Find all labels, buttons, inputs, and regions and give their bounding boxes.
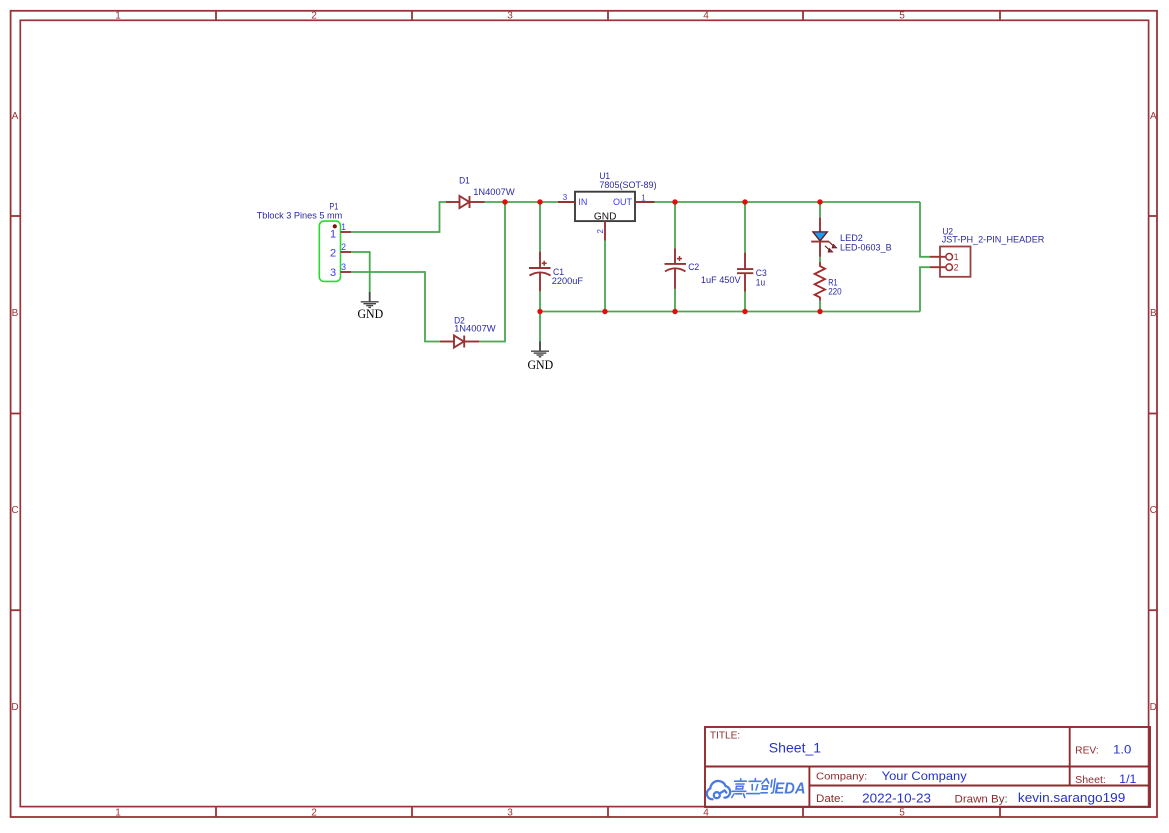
- wire C3 top: [744, 202, 746, 253]
- capacitor C2 1uF 450V (polarized): [665, 248, 742, 289]
- TITLEBLOCK: [705, 727, 1150, 807]
- svg-text:A: A: [12, 111, 19, 122]
- svg-text:D1: D1: [459, 175, 470, 186]
- svg-text:2022-10-23: 2022-10-23: [862, 790, 931, 805]
- wire LED2 cathode to R1: [819, 257, 821, 262]
- svg-text:1/1: 1/1: [1119, 772, 1137, 786]
- svg-text:1.0: 1.0: [1113, 743, 1132, 757]
- svg-text:B: B: [12, 308, 19, 319]
- wire C2 bottom: [674, 289, 676, 312]
- svg-text:kevin.sarango199: kevin.sarango199: [1018, 790, 1125, 805]
- wire U2 pin2 to GND rail: [920, 267, 930, 311]
- svg-text:1: 1: [641, 193, 646, 202]
- svg-text:1N4007W: 1N4007W: [473, 186, 515, 197]
- svg-text:C2: C2: [688, 261, 699, 272]
- svg-text:5: 5: [899, 808, 905, 819]
- svg-text:2: 2: [596, 229, 605, 234]
- svg-text:C: C: [1150, 505, 1157, 516]
- svg-text:Sheet_1: Sheet_1: [769, 740, 822, 756]
- svg-text:1: 1: [330, 228, 336, 240]
- svg-text:2: 2: [954, 262, 959, 272]
- wire U1 GND pin to GND rail: [604, 241, 606, 312]
- svg-text:GND: GND: [527, 358, 553, 372]
- resistor R1 220: [815, 262, 842, 301]
- svg-text:2: 2: [330, 248, 336, 260]
- svg-text:3: 3: [563, 193, 568, 202]
- svg-text:4: 4: [703, 11, 709, 22]
- svg-text:Company:: Company:: [816, 771, 867, 783]
- junction +5V/LED2: [817, 199, 822, 204]
- junction GND/R1: [817, 309, 822, 314]
- svg-text:D: D: [1150, 702, 1157, 713]
- U1 pin 3 (IN) lead: [558, 201, 575, 203]
- U1 pin 1 (OUT) lead: [635, 201, 655, 203]
- svg-text:Tblock 3 Pines 5 mm: Tblock 3 Pines 5 mm: [257, 209, 343, 220]
- junction GND/C2: [672, 309, 677, 314]
- wire +5V rail to U2 pin1: [920, 202, 930, 257]
- wire D2 cathode up to VIN rail: [479, 202, 505, 342]
- junction +5V/C3: [742, 199, 747, 204]
- svg-text:C: C: [11, 505, 18, 516]
- P1 pin1 origin dot: [333, 224, 337, 228]
- svg-text:B: B: [1150, 308, 1157, 319]
- junction GND/C3: [742, 309, 747, 314]
- wire GND bottom rail: [540, 311, 920, 313]
- wire P1 pin1 to D1 anode: [351, 202, 446, 232]
- ground symbol GND (main rail): [527, 342, 553, 372]
- svg-text:3: 3: [507, 11, 513, 22]
- svg-text:IN: IN: [578, 197, 587, 207]
- svg-text:A: A: [1150, 111, 1157, 122]
- svg-text:Your Company: Your Company: [882, 771, 967, 783]
- svg-text:REV:: REV:: [1075, 746, 1099, 757]
- svg-text:7805(SOT-89): 7805(SOT-89): [599, 179, 656, 190]
- svg-text:1u: 1u: [756, 276, 765, 287]
- svg-text:2: 2: [341, 242, 346, 252]
- wire C1 top to VIN rail: [539, 202, 541, 251]
- svg-text:3: 3: [507, 808, 513, 819]
- svg-text:Drawn By:: Drawn By:: [955, 793, 1008, 805]
- svg-text:Date:: Date:: [816, 793, 844, 805]
- U1 pin 2 (GND) lead: [604, 221, 606, 240]
- svg-text:OUT: OUT: [613, 197, 633, 207]
- 嘉: [731, 779, 747, 798]
- wire P1 pin2 to GND symbol: [351, 252, 370, 292]
- junction GND/C1: [537, 309, 542, 314]
- svg-text:220: 220: [828, 286, 842, 297]
- ground symbol GND (P1 pin2): [357, 292, 383, 321]
- capacitor C1 2200uF (polarized): [529, 251, 583, 291]
- svg-text:3: 3: [330, 267, 336, 279]
- wire D1 cathode to U1 IN (net VIN): [485, 201, 559, 203]
- junction VIN/D2: [502, 199, 507, 204]
- connector P1: [257, 201, 351, 282]
- LED2 emission arrows: [825, 242, 836, 252]
- svg-text:1: 1: [954, 252, 959, 262]
- diode D1 1N4007W: [446, 175, 515, 209]
- svg-text:LED-0603_B: LED-0603_B: [840, 242, 892, 253]
- svg-text:1: 1: [115, 11, 121, 22]
- regulator U1 7805(SOT-89): [558, 170, 657, 241]
- wire P1 pin3 to D2 anode: [351, 272, 440, 342]
- LED2 LED-0603_B: [811, 217, 891, 256]
- svg-text:1uF 450V: 1uF 450V: [701, 274, 741, 285]
- connector U2 JST-PH_2-PIN_HEADER: [930, 225, 1045, 276]
- svg-text:GND: GND: [594, 211, 617, 222]
- junction GND/U1: [602, 309, 607, 314]
- svg-text:1: 1: [341, 222, 346, 232]
- diode D2 1N4007W: [440, 314, 496, 347]
- wire C1 bottom to GND rail: [539, 291, 541, 311]
- svg-text:JST-PH_2-PIN_HEADER: JST-PH_2-PIN_HEADER: [942, 234, 1045, 245]
- svg-text:TITLE:: TITLE:: [710, 731, 740, 742]
- wire GND2 symbol drop: [539, 312, 541, 342]
- junction +5V/C2: [672, 199, 677, 204]
- CIRCUIT: [257, 170, 1045, 372]
- svg-text:1N4007W: 1N4007W: [454, 323, 496, 334]
- wire R1 to GND rail: [819, 301, 821, 312]
- wire C2 top: [674, 202, 676, 248]
- svg-text:GND: GND: [357, 307, 383, 321]
- svg-text:2200uF: 2200uF: [552, 275, 584, 286]
- wire U1 OUT +5V rail: [655, 201, 921, 203]
- svg-text:D: D: [11, 702, 18, 713]
- junction VIN/C1: [537, 199, 542, 204]
- JLC EDA logo: [707, 779, 806, 800]
- 立: [747, 779, 762, 794]
- svg-text:4: 4: [703, 808, 709, 819]
- svg-text:EDA: EDA: [775, 781, 806, 798]
- svg-text:5: 5: [899, 11, 905, 22]
- svg-text:1: 1: [115, 808, 121, 819]
- svg-text:3: 3: [341, 262, 346, 272]
- svg-text:2: 2: [311, 11, 317, 22]
- 创: [761, 779, 776, 794]
- capacitor C3 1u: [737, 253, 767, 292]
- svg-text:2: 2: [311, 808, 317, 819]
- wire LED2 anode: [819, 202, 821, 217]
- wire C3 bottom: [744, 292, 746, 312]
- svg-text:Sheet:: Sheet:: [1075, 774, 1106, 786]
